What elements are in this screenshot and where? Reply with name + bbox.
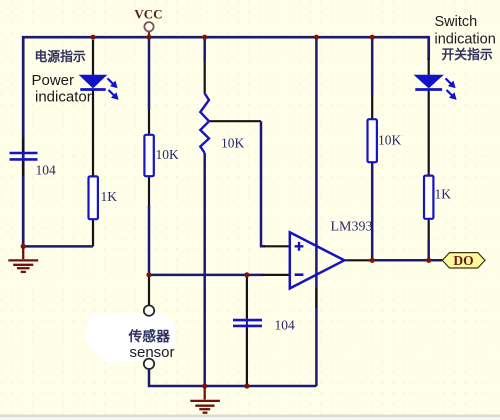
sensor terminal lower (144, 359, 154, 369)
wire R4 to output net (427, 240, 430, 260)
ground left (8, 246, 38, 272)
wire R3 10K-right top pin (371, 95, 373, 119)
resistor R4 1K (right) (424, 176, 433, 219)
wire bottom rail right end up through op-amp to VCC rail (315, 37, 318, 386)
wire rail to pot (203, 38, 206, 62)
wire pot wiper to plus input (209, 120, 261, 122)
junction bottom rail at pot (202, 383, 207, 388)
wire sensor lower terminal to bottom rail (149, 369, 316, 386)
wire VCC rail: left drop + top rail + right drop (23, 37, 429, 246)
svg-text:DO: DO (453, 253, 473, 268)
wire R1 10K-left bottom pin (148, 176, 150, 205)
wire D2 cathode to R4 1K-right (428, 90, 430, 176)
wire node to sensor upper terminal (148, 275, 150, 305)
wire rail to R3 (371, 38, 374, 95)
sensor cloud background (86, 313, 176, 364)
svg-text:电源指示: 电源指示 (35, 49, 86, 64)
wire R2 1K bottom pin (92, 219, 94, 246)
wire cap C2 top pin from minus node (246, 275, 248, 319)
resistor R3 10K (right) (368, 119, 377, 162)
svg-text:Power: Power (32, 72, 75, 89)
sensor terminal upper (144, 305, 154, 315)
op-amp minus sign (295, 273, 304, 276)
op-amp U1 LM393 triangle (290, 232, 345, 288)
svg-text:sensor: sensor (130, 344, 175, 361)
wire to left ground node (23, 245, 93, 248)
svg-text:indicator: indicator (35, 89, 92, 106)
junction minus node at R1 (146, 272, 151, 277)
junction bottom rail at C2 (244, 383, 249, 388)
junction left ground node (21, 244, 26, 249)
capacitor C1 104 plates (10, 152, 38, 160)
junction output at R4 (426, 258, 431, 263)
junction on rail at R1 (146, 35, 151, 40)
wire pot RP top pin (204, 62, 206, 94)
junction on rail at pot (202, 35, 207, 40)
junction on rail at R3 (370, 35, 375, 40)
wire minus-input net (149, 274, 263, 277)
junction minus node at C2 (244, 272, 249, 277)
wire LED D1 column pins (92, 40, 94, 75)
potentiometer RP 10K zigzag (200, 94, 209, 154)
op-amp output pin (344, 259, 372, 261)
junction on rail at op-amp supply (314, 35, 319, 40)
junction on rail at D1 (90, 35, 95, 40)
LED D2 switch indicator (415, 75, 456, 99)
wire output net to DO port (372, 259, 442, 262)
wire cap C1 bottom pin (22, 161, 24, 176)
power port VCC circle (144, 22, 153, 31)
wire LED D2 pin from rail corner (428, 58, 430, 75)
wire R4 1K-right bottom pin (428, 219, 430, 240)
svg-text:104: 104 (36, 163, 57, 178)
LED D1 power indicator (80, 75, 118, 99)
wire left column to cap C1 top pin (22, 137, 24, 152)
svg-text:LM393: LM393 (331, 219, 373, 234)
junction output at R3 (370, 258, 375, 263)
svg-text:104: 104 (275, 317, 296, 332)
wire cap C2 bottom pin to bottom rail (246, 327, 248, 386)
wire pot RP bottom to bottom rail (203, 153, 206, 386)
ground bottom (190, 386, 220, 413)
op-amp plus input pin (264, 245, 290, 247)
resistor R1 10K (left) (144, 135, 153, 176)
bottom photo edge strip (0, 415, 500, 417)
wire R3 10K-right bottom to output net (371, 162, 374, 260)
power port VCC stub (148, 31, 150, 38)
svg-text:10K: 10K (221, 136, 245, 151)
svg-text:1K: 1K (435, 187, 452, 202)
port DO (442, 253, 485, 268)
op-amp plus sign (295, 242, 304, 251)
svg-text:开关指示: 开关指示 (442, 47, 493, 62)
wire wiper drop to plus input (261, 121, 265, 246)
resistor R2 1K (left) (89, 176, 98, 219)
svg-text:Switch: Switch (435, 14, 478, 30)
svg-text:VCC: VCC (134, 7, 162, 22)
op-amp minus input pin (262, 274, 290, 276)
svg-text:传感器: 传感器 (128, 328, 171, 344)
svg-text:10K: 10K (156, 147, 180, 162)
capacitor C2 104 plates (233, 319, 262, 327)
svg-text:10K: 10K (378, 132, 402, 147)
op-amp ground pin segment (315, 288, 317, 308)
wire rail to R1 (148, 38, 151, 110)
svg-text:indication: indication (435, 31, 496, 47)
wire D1 cathode to R2 1K top (92, 90, 94, 177)
svg-text:1K: 1K (101, 189, 118, 204)
wire R1 to minus-input node (148, 205, 151, 275)
wire R1 10K-left top pin (148, 110, 150, 135)
